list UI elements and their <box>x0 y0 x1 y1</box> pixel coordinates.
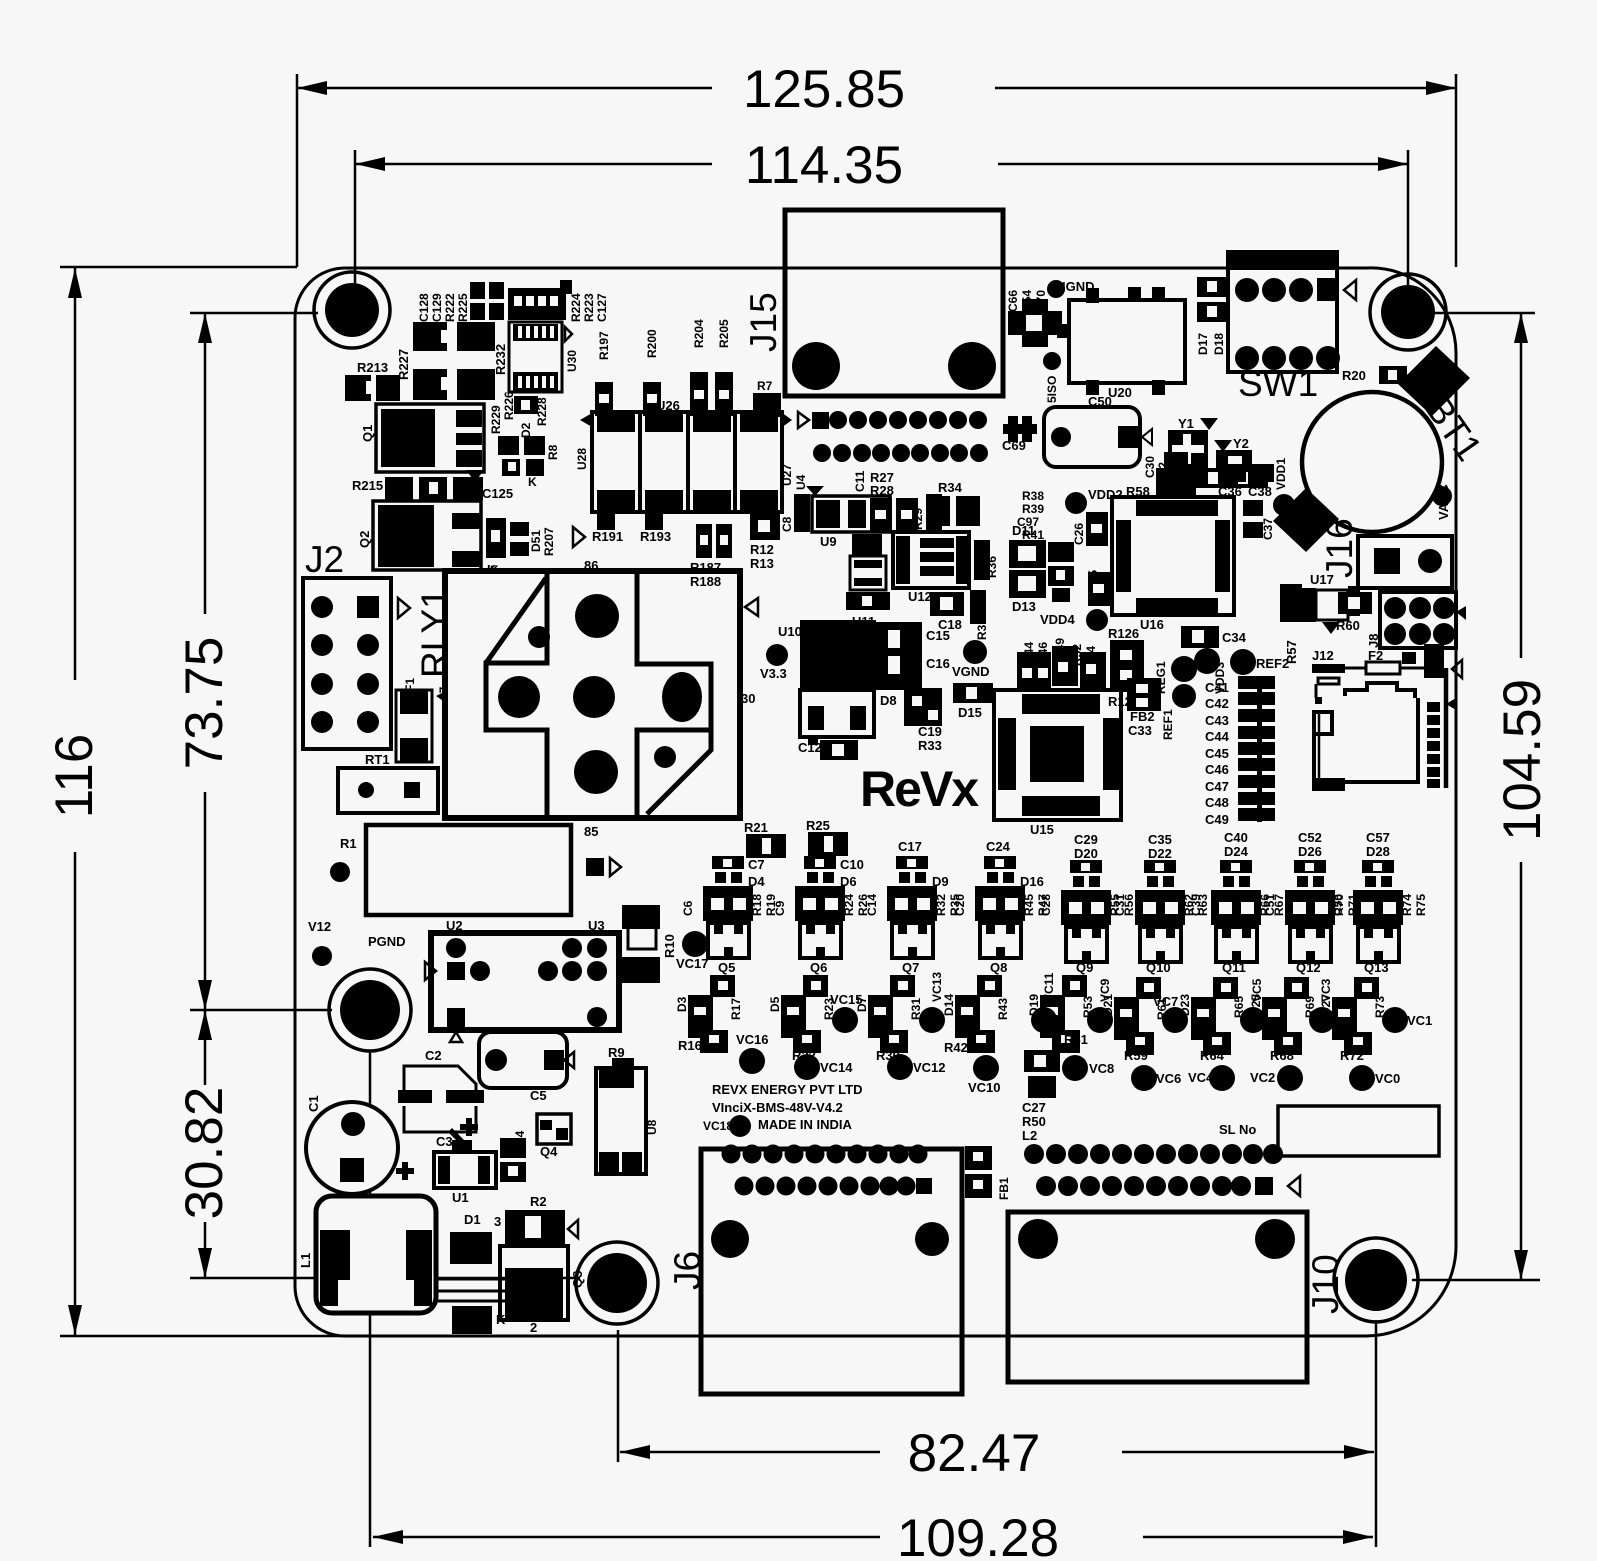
svg-text:Q13: Q13 <box>1364 960 1389 975</box>
svg-text:R72: R72 <box>1340 1048 1364 1063</box>
REF1 net <box>1161 684 1196 740</box>
mounting hole left-middle PGND <box>329 969 411 1051</box>
transistor Q5 cluster <box>681 856 778 975</box>
svg-text:D14: D14 <box>942 994 956 1016</box>
svg-text:VC10: VC10 <box>968 1080 1001 1095</box>
svg-text:U8: U8 <box>645 1119 659 1135</box>
svg-text:R41: R41 <box>1022 528 1044 542</box>
VC7 node <box>1153 994 1188 1033</box>
svg-text:VC16: VC16 <box>736 1032 769 1047</box>
svg-text:K: K <box>528 475 537 489</box>
resistor R1 <box>330 825 621 915</box>
svg-text:C57: C57 <box>1366 830 1390 845</box>
resistors R38 R39 C97 R41 <box>1017 489 1074 602</box>
VC2 node <box>1250 1065 1303 1091</box>
svg-text:C15: C15 <box>926 628 950 643</box>
VC17 node <box>676 931 709 971</box>
connector J6 <box>667 1149 962 1394</box>
svg-text:C66: C66 <box>1006 290 1020 312</box>
VC1 node <box>1382 1007 1432 1033</box>
QROW <box>681 830 1428 975</box>
svg-text:VInciX-BMS-48V-V4.2: VInciX-BMS-48V-V4.2 <box>712 1100 843 1115</box>
svg-text:R126: R126 <box>1108 626 1139 641</box>
svg-text:R29: R29 <box>911 508 925 530</box>
connector J12 microSD <box>1312 648 1456 791</box>
diode D51 R207 <box>486 518 556 577</box>
svg-text:R197: R197 <box>597 331 611 360</box>
thermistor RT1 <box>338 752 438 813</box>
svg-text:R191: R191 <box>592 529 623 544</box>
svg-text:3: 3 <box>494 1214 501 1229</box>
svg-text:C6: C6 <box>681 900 695 916</box>
VC9 node <box>1087 978 1113 1033</box>
svg-text:Q9: Q9 <box>1076 960 1093 975</box>
TOPLEFT <box>345 280 609 577</box>
svg-text:R226: R226 <box>502 391 516 420</box>
svg-text:D51: D51 <box>529 530 543 552</box>
svg-text:MADE IN INDIA: MADE IN INDIA <box>758 1117 853 1132</box>
svg-text:R25: R25 <box>806 818 830 833</box>
transistor Q12 cluster <box>1263 830 1360 975</box>
transistor Q11 cluster <box>1189 830 1286 975</box>
svg-text:R13: R13 <box>750 556 774 571</box>
resistors R229 D2 R8 <box>489 405 560 489</box>
svg-text:82.47: 82.47 <box>908 1424 1041 1483</box>
svg-text:C49: C49 <box>1205 812 1229 827</box>
resistor R21 <box>744 820 786 858</box>
capacitor C69 <box>1002 416 1037 453</box>
svg-text:J10: J10 <box>1305 1254 1346 1314</box>
relay RLY1 <box>414 558 758 839</box>
dim 109.28 bottom <box>370 1050 1376 1561</box>
capacitor C5 <box>479 1032 574 1103</box>
svg-text:Q6: Q6 <box>810 960 827 975</box>
svg-text:R10: R10 <box>662 934 677 958</box>
svg-text:C5: C5 <box>530 1088 547 1103</box>
svg-text:R16: R16 <box>678 1038 702 1053</box>
svg-text:VC5: VC5 <box>1250 978 1264 1002</box>
svg-text:PGND: PGND <box>368 934 406 949</box>
svg-text:Q2: Q2 <box>357 531 372 548</box>
resistors R44 R46 R49 R52 R54 <box>1017 638 1106 688</box>
transistor Q2 <box>357 501 481 570</box>
svg-text:VC1: VC1 <box>1407 1013 1432 1028</box>
svg-text:REF1: REF1 <box>1161 709 1175 740</box>
svg-text:J2: J2 <box>305 539 344 580</box>
svg-text:R213: R213 <box>357 360 388 375</box>
VDD1 net <box>1273 458 1295 516</box>
svg-text:Q12: Q12 <box>1296 960 1321 975</box>
svg-text:D2: D2 <box>519 422 533 438</box>
VC10 node <box>968 1055 1001 1095</box>
regulator U1 C3 C4 <box>434 1118 527 1205</box>
V3.3 net <box>760 644 788 681</box>
VC12 node <box>887 1054 946 1080</box>
svg-text:R17: R17 <box>729 998 743 1020</box>
dim 125.85 top <box>297 60 1456 267</box>
dim 30.82 <box>175 1010 580 1278</box>
transistor Q7 cluster <box>865 839 962 975</box>
svg-text:C40: C40 <box>1224 830 1248 845</box>
svg-text:R12: R12 <box>750 542 774 557</box>
svg-text:R38: R38 <box>1022 489 1044 503</box>
svg-text:Q11: Q11 <box>1222 960 1246 975</box>
VDD4 net <box>1040 609 1108 631</box>
resistor R10 <box>622 905 677 983</box>
svg-text:C129: C129 <box>430 293 444 322</box>
dim 73.75 <box>175 313 332 1010</box>
svg-text:U16: U16 <box>1140 617 1164 632</box>
svg-text:Q4: Q4 <box>540 1144 558 1159</box>
svg-text:C34: C34 <box>1222 630 1247 645</box>
TOPRIGHT <box>743 210 1490 632</box>
battery BT1 <box>1273 346 1490 552</box>
BOARD <box>295 268 1456 1336</box>
diode D7 cluster <box>855 975 923 1063</box>
svg-text:114.35: 114.35 <box>745 136 903 195</box>
serial number box SL No <box>1219 1106 1439 1156</box>
pin header dots left row1 <box>722 1145 928 1164</box>
svg-text:D5: D5 <box>768 996 782 1012</box>
capacitor C50 <box>1044 394 1152 467</box>
resistors C11 R27 R28 <box>853 470 918 532</box>
ferrite FB1 <box>965 1146 1011 1200</box>
svg-text:SL No: SL No <box>1219 1122 1256 1137</box>
svg-text:D24: D24 <box>1224 844 1249 859</box>
svg-text:R228: R228 <box>535 397 549 426</box>
svg-text:R21: R21 <box>744 820 768 835</box>
svg-text:C28: C28 <box>1039 894 1053 916</box>
MIDLEFT <box>298 539 758 1335</box>
svg-text:VADC: VADC <box>1436 484 1451 520</box>
REG1 net <box>1154 656 1197 694</box>
mounting hole top-right <box>1370 274 1446 350</box>
svg-text:R74: R74 <box>1400 894 1414 916</box>
IC U15 QFP <box>994 690 1121 837</box>
svg-text:U9: U9 <box>820 534 837 549</box>
svg-text:D18: D18 <box>1212 333 1226 355</box>
svg-text:C41: C41 <box>1205 680 1229 695</box>
svg-text:C3: C3 <box>436 1134 453 1149</box>
resistor R29 <box>911 494 942 530</box>
svg-text:J15: J15 <box>743 292 784 352</box>
IC U2 U3 <box>425 918 619 1042</box>
svg-text:Q1: Q1 <box>360 425 375 442</box>
diode D8 <box>880 688 942 726</box>
svg-text:L2: L2 <box>1022 1128 1037 1143</box>
svg-text:D1: D1 <box>464 1212 481 1227</box>
pin header dots right row2 <box>1036 1176 1300 1196</box>
svg-text:VC8: VC8 <box>1089 1061 1114 1076</box>
svg-text:D15: D15 <box>958 705 982 720</box>
fuse F2 <box>1345 644 1462 678</box>
mounting hole bottom-middle <box>576 1242 658 1324</box>
svg-text:C33: C33 <box>1128 723 1152 738</box>
svg-text:U26: U26 <box>656 398 680 413</box>
svg-text:R229: R229 <box>489 405 503 434</box>
diode D25 cluster <box>1249 977 1317 1063</box>
svg-text:C24: C24 <box>986 839 1011 854</box>
pin header dots right row1 <box>1024 1144 1283 1164</box>
svg-text:R64: R64 <box>1200 1048 1225 1063</box>
svg-text:C51: C51 <box>1263 894 1277 916</box>
pin header dots left row2 <box>735 1177 933 1196</box>
svg-text:D9: D9 <box>932 874 949 889</box>
svg-text:R1: R1 <box>340 836 357 851</box>
svg-text:C97: C97 <box>1017 515 1039 529</box>
svg-text:R42: R42 <box>944 1040 968 1055</box>
connector bottom-right <box>1008 1212 1307 1382</box>
svg-text:C39: C39 <box>1189 894 1203 916</box>
svg-text:REG1: REG1 <box>1154 661 1168 694</box>
svg-text:R28: R28 <box>870 483 894 498</box>
dim 114.35 <box>355 136 1408 300</box>
svg-text:R222: R222 <box>443 293 457 322</box>
svg-text:C127: C127 <box>595 293 609 322</box>
svg-text:SW1: SW1 <box>1238 363 1318 404</box>
transistor Q13 cluster <box>1331 830 1428 975</box>
svg-text:D3: D3 <box>675 996 689 1012</box>
diode D27 cluster <box>1319 977 1387 1063</box>
VC15 node <box>830 992 863 1033</box>
fuse F1 <box>396 678 451 762</box>
resistor R213 <box>345 360 400 401</box>
svg-text:U30: U30 <box>565 350 579 372</box>
BOTTOM <box>667 1082 1439 1394</box>
svg-text:C47: C47 <box>1205 779 1229 794</box>
svg-text:C10: C10 <box>840 857 864 872</box>
resistor R215 C125 <box>352 470 513 501</box>
svg-text:R2: R2 <box>530 1194 547 1209</box>
svg-text:R75: R75 <box>1414 894 1428 916</box>
svg-text:R39: R39 <box>1022 502 1044 516</box>
IC U12 <box>893 532 969 604</box>
VGND net <box>952 640 990 679</box>
svg-text:D13: D13 <box>1012 599 1036 614</box>
svg-text:R205: R205 <box>717 319 731 348</box>
svg-text:D8: D8 <box>880 693 897 708</box>
connector J2 <box>303 539 410 749</box>
svg-text:R9: R9 <box>608 1045 625 1060</box>
capacitor C25 <box>1086 570 1110 606</box>
svg-text:VC14: VC14 <box>820 1060 853 1075</box>
svg-text:J12: J12 <box>1312 648 1334 663</box>
svg-text:C56: C56 <box>1331 894 1345 916</box>
capacitor cluster C128 C129 R222 R225 <box>417 282 504 322</box>
resistors R187 R188 <box>690 524 732 589</box>
capacitor C1 <box>306 1095 414 1194</box>
pin header dots row2 <box>813 444 988 462</box>
svg-text:30.82: 30.82 <box>175 1087 234 1220</box>
svg-text:U28: U28 <box>575 448 589 470</box>
IC U11 C13 <box>846 534 890 643</box>
svg-text:VGND: VGND <box>952 664 990 679</box>
svg-text:U15: U15 <box>1030 822 1054 837</box>
svg-text:V3.3: V3.3 <box>760 666 787 681</box>
diode D3 cluster <box>675 975 743 1053</box>
svg-text:C30: C30 <box>1143 456 1157 478</box>
IC U30 <box>493 322 579 392</box>
svg-text:VC2: VC2 <box>1250 1070 1275 1085</box>
IC U16 QFP <box>1110 497 1234 632</box>
svg-text:R188: R188 <box>690 574 721 589</box>
svg-text:C43: C43 <box>1205 713 1229 728</box>
svg-text:R60: R60 <box>1336 618 1360 633</box>
svg-text:R224: R224 <box>569 293 583 322</box>
svg-text:C45: C45 <box>1205 746 1229 761</box>
transistor Q3 R2 <box>494 1194 585 1335</box>
resistors R226 R228 <box>502 391 549 426</box>
transistor Q9 cluster <box>1039 832 1136 975</box>
resistor R126 R125 <box>1108 626 1144 709</box>
diode D14 cluster <box>942 975 1010 1055</box>
svg-text:VC7: VC7 <box>1153 994 1178 1009</box>
svg-text:Q8: Q8 <box>990 960 1007 975</box>
diode D21 cluster <box>1101 977 1169 1063</box>
VC13 node <box>919 972 945 1033</box>
svg-text:R232: R232 <box>493 344 508 375</box>
svg-text:VDD4: VDD4 <box>1040 612 1075 627</box>
svg-text:VC13: VC13 <box>930 972 944 1002</box>
svg-text:R33: R33 <box>918 738 942 753</box>
VC8 node <box>1062 1055 1114 1081</box>
svg-text:L1: L1 <box>298 1253 313 1268</box>
svg-text:VDD2: VDD2 <box>1088 487 1123 502</box>
svg-text:C37: C37 <box>1261 518 1275 540</box>
svg-text:C17: C17 <box>898 839 922 854</box>
svg-text:D6: D6 <box>840 874 857 889</box>
VDD2 net <box>1065 487 1123 514</box>
svg-text:R34: R34 <box>938 480 963 495</box>
svg-text:D28: D28 <box>1366 844 1390 859</box>
svg-text:Q10: Q10 <box>1146 960 1171 975</box>
transistor Q6 cluster <box>773 856 870 975</box>
svg-text:R187: R187 <box>690 560 721 575</box>
diode D23 cluster <box>1178 977 1246 1063</box>
diode D5 cluster <box>768 975 836 1063</box>
capacitor C2 <box>398 1048 484 1132</box>
ferrite FB2 C33 <box>1127 678 1161 738</box>
svg-text:R225: R225 <box>456 293 470 322</box>
capacitors C15 C16 <box>876 622 950 690</box>
svg-text:30: 30 <box>741 691 755 706</box>
svg-text:D16: D16 <box>1020 874 1044 889</box>
VC0 node <box>1349 1065 1400 1091</box>
svg-text:REVX ENERGY PVT LTD: REVX ENERGY PVT LTD <box>712 1082 863 1097</box>
svg-text:U27: U27 <box>780 464 794 486</box>
resistor R36 <box>974 540 999 580</box>
resistor R227 group <box>396 322 495 400</box>
svg-text:R193: R193 <box>640 529 671 544</box>
MIDRIGHT <box>952 518 1466 837</box>
resistors R12 R13 <box>750 514 780 571</box>
svg-text:C7: C7 <box>748 857 765 872</box>
mounting hole bottom-right J10 <box>1334 1238 1418 1322</box>
inductor L2 C27 R50 column <box>1022 1050 1060 1143</box>
svg-text:R59: R59 <box>1124 1048 1148 1063</box>
svg-text:V12: V12 <box>308 919 331 934</box>
svg-text:D17: D17 <box>1196 333 1210 355</box>
capacitor C12 <box>798 737 858 760</box>
svg-text:R18: R18 <box>750 894 764 916</box>
transistor Q8 cluster <box>953 839 1050 975</box>
svg-text:R32: R32 <box>934 894 948 916</box>
VC3 node <box>1309 978 1335 1033</box>
MIDDLE <box>573 319 999 858</box>
capacitor C34 <box>1181 626 1247 648</box>
svg-text:U4: U4 <box>794 474 808 490</box>
svg-text:R51: R51 <box>1064 1032 1088 1047</box>
diode D19 cluster <box>1027 975 1095 1053</box>
diodes D17 D18 <box>1196 277 1229 355</box>
svg-text:FB2: FB2 <box>1130 709 1155 724</box>
svg-text:R57: R57 <box>1284 640 1299 664</box>
transistor Q1 <box>360 404 484 472</box>
svg-text:FB1: FB1 <box>997 1177 1011 1200</box>
svg-text:RT1: RT1 <box>365 752 390 767</box>
VC4 node <box>1188 1065 1235 1091</box>
svg-text:VC6: VC6 <box>1156 1071 1181 1086</box>
svg-text:R43: R43 <box>996 998 1010 1020</box>
svg-text:C11: C11 <box>853 470 867 492</box>
capacitor C19 R33 <box>918 724 942 753</box>
header row R224 R223 C127 <box>508 280 609 322</box>
dim 82.47 bottom <box>618 1330 1374 1483</box>
svg-text:109.28: 109.28 <box>897 1509 1059 1561</box>
VDD3 net <box>1194 648 1227 694</box>
svg-text:C26: C26 <box>1072 523 1086 545</box>
svg-text:VDD1: VDD1 <box>1274 458 1288 490</box>
VC6 node <box>1131 1065 1181 1091</box>
svg-text:VC4: VC4 <box>1188 1070 1214 1085</box>
diode D13 <box>1009 570 1046 614</box>
svg-text:125.85: 125.85 <box>743 60 905 119</box>
IC U17 <box>1302 572 1360 634</box>
svg-text:VC11: VC11 <box>1042 972 1056 1002</box>
svg-text:C20: C20 <box>953 894 967 916</box>
svg-text:R20: R20 <box>1342 368 1366 383</box>
capacitor C26 <box>1072 512 1108 546</box>
svg-text:C52: C52 <box>1298 830 1322 845</box>
svg-text:RLY1: RLY1 <box>414 588 455 678</box>
diode D1 <box>436 1212 506 1334</box>
svg-text:ReVx: ReVx <box>860 761 979 817</box>
VADC net <box>1432 484 1452 520</box>
svg-text:R50: R50 <box>1022 1114 1046 1129</box>
crystal Y1 Y2 <box>1143 416 1268 488</box>
svg-text:VC17: VC17 <box>676 956 709 971</box>
capacitor C37 <box>1243 500 1275 540</box>
inductor L1 <box>298 1196 436 1313</box>
svg-text:C48: C48 <box>1205 795 1229 810</box>
resistor R20 <box>1342 366 1407 384</box>
svg-text:D22: D22 <box>1148 846 1172 861</box>
svg-text:C14: C14 <box>865 894 879 916</box>
board outline <box>295 268 1456 1336</box>
VC14 node <box>794 1054 853 1080</box>
resistor R57 <box>1280 584 1302 664</box>
dim 104.59 right <box>1412 313 1552 1280</box>
VC16 node <box>736 1032 769 1074</box>
capacitors C66 C54 C70 IGND <box>1006 279 1095 347</box>
svg-text:VC15: VC15 <box>830 992 863 1007</box>
svg-text:C44: C44 <box>1205 729 1230 744</box>
regulator U10 <box>778 620 876 737</box>
svg-text:C8: C8 <box>780 516 794 532</box>
svg-text:C31: C31 <box>1113 894 1127 916</box>
svg-text:VC18: VC18 <box>703 1119 733 1133</box>
svg-text:C125: C125 <box>482 486 513 501</box>
